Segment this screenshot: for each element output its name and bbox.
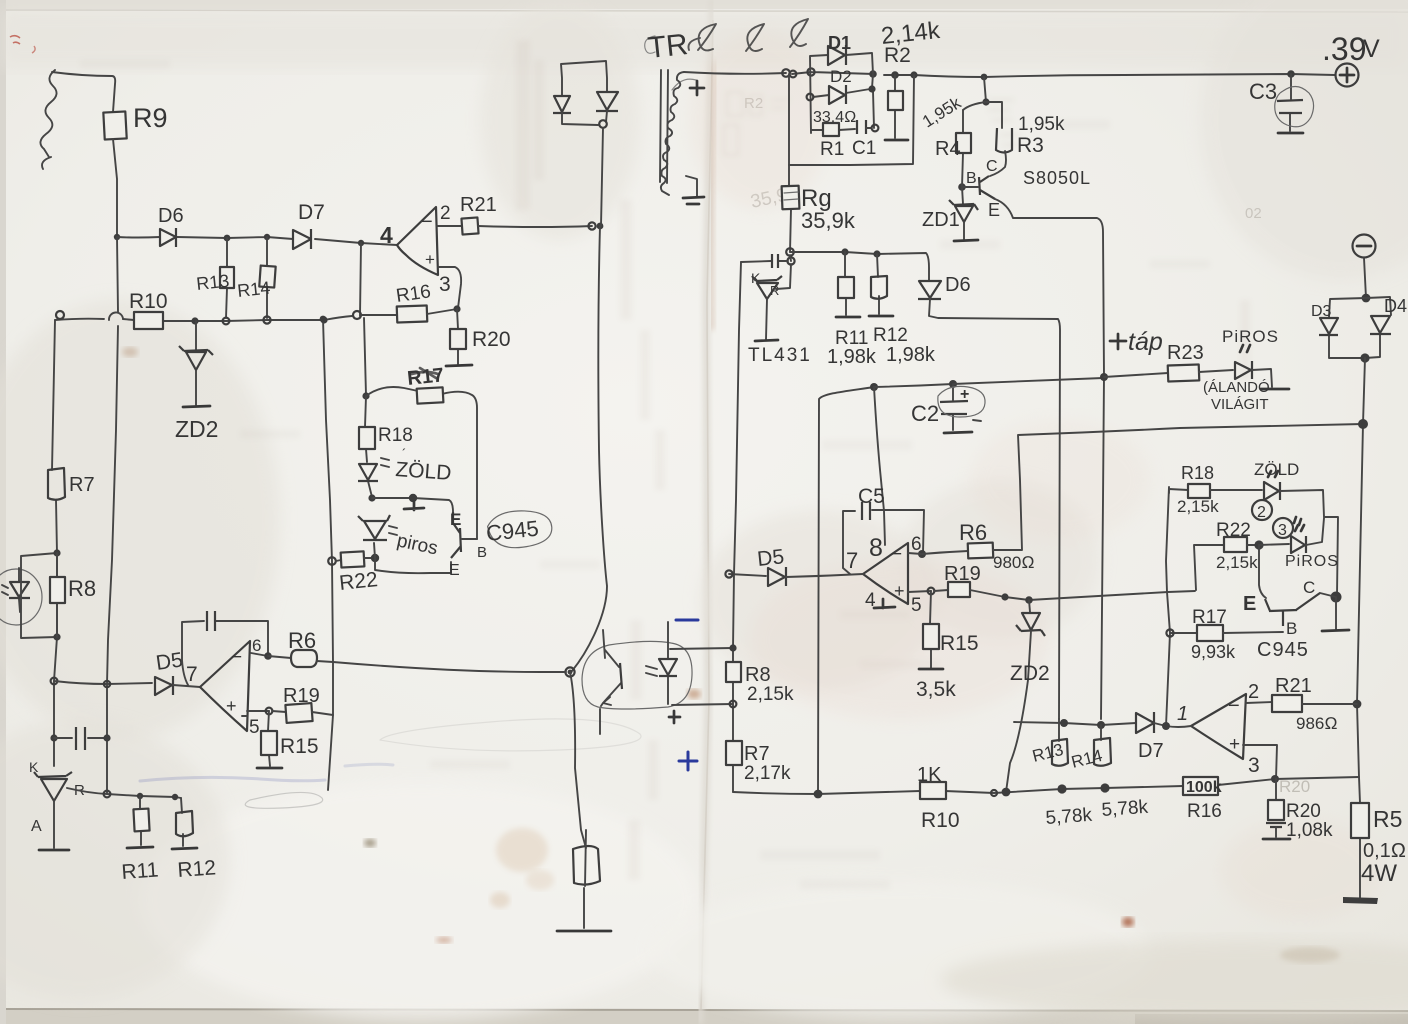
svg-text:C2: C2 <box>911 401 939 426</box>
svg-text:R9: R9 <box>133 103 168 133</box>
svg-text:E: E <box>988 200 1000 220</box>
svg-text:R12: R12 <box>873 325 908 346</box>
svg-text:R16: R16 <box>1187 801 1222 822</box>
resistor R7b on rail <box>726 741 742 765</box>
capacitor K coupling <box>741 261 788 262</box>
loop left end <box>56 311 64 319</box>
node R2 top <box>891 71 899 79</box>
svg-text:R11: R11 <box>121 858 159 884</box>
wire R6 to rail <box>317 661 333 662</box>
svg-text:D5: D5 <box>154 648 184 675</box>
LED piros (always on) <box>1235 361 1252 379</box>
resistor R20b <box>1275 779 1277 800</box>
wire node to R3 <box>986 102 1002 128</box>
wire to D5 <box>54 681 152 684</box>
node piros2 <box>1254 540 1263 549</box>
wire R23 to LED <box>1199 370 1233 372</box>
svg-text:2,15k: 2,15k <box>1216 553 1258 572</box>
main top bus <box>684 72 1335 77</box>
resistor R20 <box>450 329 466 349</box>
resistor R21 <box>461 217 478 234</box>
resistor R1 <box>811 129 855 130</box>
vertical rail x117 <box>107 237 118 794</box>
plus mark <box>690 81 704 95</box>
svg-text:3: 3 <box>439 273 451 296</box>
svg-text:B: B <box>966 170 977 187</box>
svg-text:C: C <box>986 158 998 175</box>
svg-text:−: − <box>1228 695 1240 717</box>
svg-text:R17: R17 <box>406 364 445 390</box>
svg-text:6: 6 <box>252 636 261 655</box>
wire node to R4 <box>963 102 986 110</box>
node pin3/R20 <box>453 305 460 312</box>
wire R3 to collector <box>990 151 1006 176</box>
resistor R15b <box>930 591 931 668</box>
loop R16 end <box>353 311 361 319</box>
ghost bleed-through text columns <box>516 40 1250 880</box>
svg-text:A: A <box>31 818 42 835</box>
wire pin3 curve <box>438 267 461 308</box>
svg-text:R20: R20 <box>1286 801 1321 822</box>
resistor R14b <box>1100 725 1102 740</box>
svg-text:R10: R10 <box>921 809 960 832</box>
wire R6a to opto node <box>333 662 566 672</box>
blue plus <box>679 752 697 770</box>
svg-text:2: 2 <box>1248 681 1259 703</box>
node bus R14 <box>263 316 270 323</box>
svg-text:100k: 100k <box>1186 779 1222 796</box>
op-amp U1D <box>1191 694 1246 759</box>
svg-text:R8: R8 <box>68 576 96 601</box>
svg-text:D4: D4 <box>1384 296 1407 316</box>
svg-text:R14: R14 <box>236 278 271 301</box>
tap label <box>1110 334 1126 349</box>
wire tap to R23 <box>1104 373 1168 377</box>
wire D7b to apex <box>1154 723 1191 727</box>
wire R18 chain <box>365 396 372 497</box>
resistor R6 <box>291 650 317 667</box>
node tap <box>1100 373 1108 381</box>
resistor R16b 100k box <box>1183 777 1218 795</box>
svg-text:VILÁGIT: VILÁGIT <box>1211 396 1269 413</box>
node box left <box>807 68 814 75</box>
secondary winding <box>661 72 684 195</box>
zener ZD2 <box>195 321 197 351</box>
svg-text:TL431: TL431 <box>748 345 812 366</box>
ground R15 <box>257 767 282 770</box>
base wire <box>462 538 477 540</box>
LED zold2 <box>1264 482 1280 500</box>
svg-text:2,15k: 2,15k <box>1177 497 1219 516</box>
ground R5 thick <box>1343 897 1378 904</box>
rail x333 <box>323 319 333 790</box>
svg-text:táp: táp <box>1128 328 1163 356</box>
arc over R17 <box>366 387 477 539</box>
faint pencil ellipse scribble bottom-left <box>245 792 322 808</box>
svg-text:5,78k: 5,78k <box>1101 797 1149 821</box>
capacitor C3 <box>1287 70 1295 78</box>
center fold crease <box>700 0 712 1024</box>
svg-text:E: E <box>1243 593 1256 615</box>
wire R14 drop <box>266 237 268 318</box>
wire to C945 collector <box>372 498 453 512</box>
node bus-A left <box>114 234 120 240</box>
wire pin2 to R21b <box>1246 702 1272 703</box>
long vertical rail x600 <box>572 128 607 671</box>
wire R19 to rail <box>312 712 333 715</box>
wire D5 to opamp <box>173 685 200 687</box>
node pin5 <box>266 708 273 715</box>
resistor R17b <box>1170 632 1197 634</box>
resistor R13 <box>220 267 234 288</box>
wire pin5 <box>908 591 931 592</box>
wire bus to divider node <box>984 77 986 102</box>
resistor R16 <box>397 305 428 322</box>
svg-text:C5: C5 <box>858 485 885 508</box>
node bus R13 <box>223 318 230 325</box>
node R22 tap <box>328 557 336 565</box>
wire pin2 to R21 <box>437 225 462 227</box>
svg-text:S8050L: S8050L <box>1023 168 1091 188</box>
wire R21 to vertical <box>478 226 592 227</box>
resistor R7 <box>48 468 65 500</box>
bus row B (R10 bus) <box>55 316 352 321</box>
resistor R21b <box>1272 695 1302 712</box>
node zold bottom <box>368 494 375 501</box>
wire R16 to pin3 node <box>427 309 457 314</box>
svg-text:1,08k: 1,08k <box>1286 820 1333 841</box>
svg-text:.39: .39 <box>1322 31 1366 67</box>
resistor R8 <box>56 553 58 637</box>
ground R20 <box>446 365 472 366</box>
optocoupler U2 LED side <box>0 569 42 625</box>
capacitor C1 <box>857 120 866 134</box>
node pin6 <box>264 652 272 660</box>
wire coil to R9 <box>52 72 115 112</box>
wire pin6 to R6b <box>922 551 968 554</box>
svg-text:3,5k: 3,5k <box>916 678 956 701</box>
svg-text:1,98k: 1,98k <box>827 346 877 368</box>
wire D7 node down <box>360 243 361 316</box>
node cap K <box>787 257 794 264</box>
wire R13 drop <box>226 238 227 318</box>
zener ZD1 <box>958 183 966 191</box>
transistor Q3 C945 E drop <box>1259 545 1266 598</box>
resistor R4 <box>962 110 963 187</box>
diode D3 <box>1329 298 1366 358</box>
wire into R16 <box>361 314 397 316</box>
node D7 out <box>358 240 364 246</box>
svg-text:986Ω: 986Ω <box>1296 714 1337 733</box>
circled 3 <box>1273 518 1293 538</box>
node double junction <box>588 222 595 229</box>
node D3D4 bottom <box>1360 353 1369 362</box>
node ZD1 branch <box>981 74 988 81</box>
diode D4 <box>1365 297 1391 358</box>
node small <box>991 790 997 796</box>
C2 net left curve <box>818 387 874 794</box>
wire to C2 <box>874 384 953 387</box>
svg-text:R7: R7 <box>69 474 95 496</box>
svg-text:B: B <box>1286 619 1297 638</box>
svg-text:4: 4 <box>380 222 393 248</box>
svg-text:4W: 4W <box>1361 860 1397 887</box>
svg-text:+: + <box>894 581 905 601</box>
svg-text:0,1Ω: 0,1Ω <box>1363 840 1406 862</box>
node pin3 bus <box>1271 775 1279 783</box>
resistor R18 <box>359 427 375 449</box>
wire piros2 up loop <box>1306 518 1324 545</box>
resistor R14 <box>259 266 275 288</box>
svg-text:R7: R7 <box>744 743 770 765</box>
transistor Q3 body <box>1265 593 1320 626</box>
diode D6 <box>160 228 176 247</box>
svg-text:PiROS: PiROS <box>1222 327 1279 346</box>
node R14 top <box>264 234 270 240</box>
svg-text:R4: R4 <box>935 138 961 160</box>
diode DA <box>553 96 571 113</box>
svg-text:R18: R18 <box>1181 463 1214 483</box>
svg-text:R17: R17 <box>1192 607 1227 628</box>
svg-text:C945: C945 <box>1257 639 1309 661</box>
resistor R11b <box>845 252 846 315</box>
cap C6 row <box>50 734 57 741</box>
svg-text:R6: R6 <box>288 628 316 653</box>
node pin8 rail top <box>870 383 878 391</box>
svg-text:980Ω: 980Ω <box>993 553 1034 572</box>
node D3D4 top <box>1362 294 1371 303</box>
node neg rail mid <box>1358 419 1368 429</box>
svg-text:2: 2 <box>1257 504 1266 521</box>
wire piros node down to E <box>375 558 451 573</box>
svg-text:C1: C1 <box>852 138 876 159</box>
resistor R17 (overwritten) <box>417 387 444 403</box>
svg-text:−: − <box>421 211 433 233</box>
svg-text:+: + <box>226 696 237 716</box>
wire opto LED to rail <box>670 648 733 705</box>
wire to R19 <box>272 711 286 712</box>
rail x1166 vertical <box>1166 487 1170 726</box>
svg-text:B: B <box>477 544 487 561</box>
node rail x739 <box>730 645 737 652</box>
wire main row A <box>117 237 397 245</box>
optocoupler U5 <box>582 641 692 709</box>
R8 loop <box>21 553 57 638</box>
svg-text:(ÁLANDÓ: (ÁLANDÓ <box>1203 379 1270 396</box>
feedback loop C5 <box>843 510 924 574</box>
input coil (mains winding) <box>40 70 56 169</box>
scanner edge left <box>0 0 6 1024</box>
brown stains <box>496 828 548 872</box>
transistor Q1 C945 <box>451 512 461 558</box>
diode D7b <box>1136 712 1154 733</box>
svg-text:−: − <box>891 544 902 565</box>
resistor R15 <box>268 711 270 766</box>
capacitor C2 <box>952 384 954 430</box>
node bus x1062 <box>1057 784 1066 793</box>
svg-text:ZD2: ZD2 <box>1010 662 1050 685</box>
svg-text:D7: D7 <box>1138 740 1164 762</box>
node R8 bottom <box>53 633 60 640</box>
svg-text:−: − <box>231 647 242 668</box>
wire C2 to tap junction <box>953 378 1103 384</box>
LED green (ZOLD) <box>358 464 378 481</box>
svg-text:R2: R2 <box>884 44 911 67</box>
wire D5b to apex <box>786 574 863 577</box>
top-left red mark <box>10 36 20 44</box>
svg-text:R20: R20 <box>1279 777 1310 796</box>
svg-text:D5: D5 <box>756 545 785 571</box>
svg-text:R15: R15 <box>280 735 319 758</box>
svg-text:R: R <box>770 283 779 298</box>
wire B to ZD1 node <box>962 186 978 188</box>
opto LED <box>667 622 669 704</box>
svg-text:02: 02 <box>1245 205 1262 222</box>
faint blue scribble bottom-left <box>140 777 325 781</box>
diode D1 <box>828 45 846 65</box>
wire node to LED piros2 <box>1259 544 1289 545</box>
svg-text:D1: D1 <box>828 33 851 53</box>
resistor R2 <box>894 75 896 138</box>
right rail <box>1357 358 1365 898</box>
node TL431 row x107 <box>104 791 111 798</box>
resistor R13b <box>1058 719 1060 741</box>
resistor R8b on rail <box>726 662 741 682</box>
wire R22b to node <box>1247 544 1258 546</box>
wire opto node down <box>570 672 586 848</box>
scanner edge bottom <box>0 1010 1408 1024</box>
svg-text:´: ´ <box>402 446 406 461</box>
node collector <box>1331 592 1342 603</box>
svg-text:3: 3 <box>1248 754 1260 777</box>
svg-text:35,9k: 35,9k <box>801 208 856 233</box>
svg-text:R21: R21 <box>460 194 497 216</box>
svg-text:E: E <box>450 510 461 529</box>
wire R9 down <box>113 139 117 236</box>
ground collector <box>1335 597 1337 629</box>
svg-text:R10: R10 <box>129 290 168 313</box>
fuse box <box>573 846 600 885</box>
transistor Q2 S8050 <box>979 176 995 199</box>
bottom bus <box>733 777 1359 794</box>
svg-text:C: C <box>1303 578 1315 597</box>
diode D5b <box>729 574 766 576</box>
outer loop left vertical <box>789 74 914 165</box>
svg-text:1: 1 <box>1177 703 1188 725</box>
svg-text:3: 3 <box>1278 522 1287 539</box>
svg-text:8: 8 <box>869 534 883 562</box>
resistor Rg <box>789 165 791 252</box>
svg-text:R23: R23 <box>1167 342 1204 364</box>
node R11b top <box>841 248 848 255</box>
node D5 row <box>51 678 58 685</box>
row wire TL431 net <box>790 252 929 280</box>
svg-text:R18: R18 <box>378 425 413 446</box>
resistor R9 <box>103 111 126 139</box>
svg-text:R3: R3 <box>1017 134 1044 157</box>
svg-text:ZD1: ZD1 <box>922 209 960 231</box>
resistor R5 <box>1351 803 1369 838</box>
svg-text:+: + <box>960 386 969 403</box>
node R11 top <box>137 793 143 799</box>
plus terminal <box>1336 64 1359 87</box>
pencil plus <box>669 711 680 723</box>
svg-text:TR: TR <box>646 28 689 65</box>
svg-text:R21: R21 <box>1275 675 1312 697</box>
node Rg bottom <box>786 248 794 256</box>
svg-text:ZÖLD: ZÖLD <box>395 458 452 485</box>
node opto junction <box>565 667 574 676</box>
svg-text:7: 7 <box>846 548 858 573</box>
wire LED to ground <box>1252 369 1272 387</box>
svg-text:R1: R1 <box>820 139 844 160</box>
node x117 rail crossing <box>104 681 110 687</box>
node pin6 out <box>918 550 926 558</box>
zener ZD2b <box>1029 600 1030 612</box>
node x818 <box>814 790 823 799</box>
node ZD2 top <box>191 317 198 324</box>
svg-text:1K: 1K <box>917 764 942 786</box>
svg-text:2: 2 <box>440 203 451 224</box>
vertical rail x55 <box>52 320 57 766</box>
wire R18b top <box>1169 489 1188 493</box>
svg-text:1,98k: 1,98k <box>886 344 936 366</box>
scanner edge top <box>0 0 1408 9</box>
node R8 top <box>53 549 60 556</box>
resistor R22 <box>336 560 341 561</box>
node tr out <box>782 69 790 77</box>
svg-text:R12: R12 <box>177 856 217 882</box>
svg-text:R15: R15 <box>940 632 979 655</box>
svg-text:ZÖLD: ZÖLD <box>1254 460 1299 479</box>
svg-text:1,95k: 1,95k <box>1018 114 1065 135</box>
op-amp U1B <box>200 641 250 731</box>
svg-text:D6: D6 <box>945 274 971 296</box>
resistor R12 <box>181 798 183 846</box>
svg-text:R19: R19 <box>283 685 320 707</box>
LED red (piros) <box>374 543 375 558</box>
wire minus to D3D4 <box>1364 258 1366 298</box>
feedback cap C4 <box>182 621 268 685</box>
soft shading patches <box>0 9 1408 69</box>
wire R18b to LED zold <box>1210 489 1262 491</box>
node bus right <box>320 316 327 323</box>
rail x1102 lower <box>1101 376 1104 719</box>
svg-text:+: + <box>1229 734 1240 755</box>
snubber box D1 D2 R1 C1 <box>810 53 874 133</box>
svg-text:R8: R8 <box>745 664 771 686</box>
wire pin3 down <box>1243 745 1277 779</box>
resistor 1K R10b <box>920 782 946 799</box>
svg-text:D6: D6 <box>158 205 184 227</box>
svg-text:2,17k: 2,17k <box>744 763 791 784</box>
svg-text:5: 5 <box>911 595 922 616</box>
wire E to tap rail <box>995 199 1104 376</box>
svg-text:5: 5 <box>249 717 260 738</box>
C945 label ellipse <box>487 509 553 550</box>
wire pin5 <box>242 711 269 716</box>
D7b input wire <box>1014 722 1136 725</box>
node pair out <box>599 120 607 128</box>
rail x365 <box>364 318 366 395</box>
svg-text:V: V <box>1363 35 1380 63</box>
svg-text:R22: R22 <box>1216 520 1251 541</box>
phototransistor <box>600 630 621 734</box>
top scribbles (cursive marks) <box>688 19 808 51</box>
svg-text:ZD2: ZD2 <box>175 416 218 442</box>
node mid <box>409 494 417 502</box>
op-amp U1A <box>397 207 438 275</box>
